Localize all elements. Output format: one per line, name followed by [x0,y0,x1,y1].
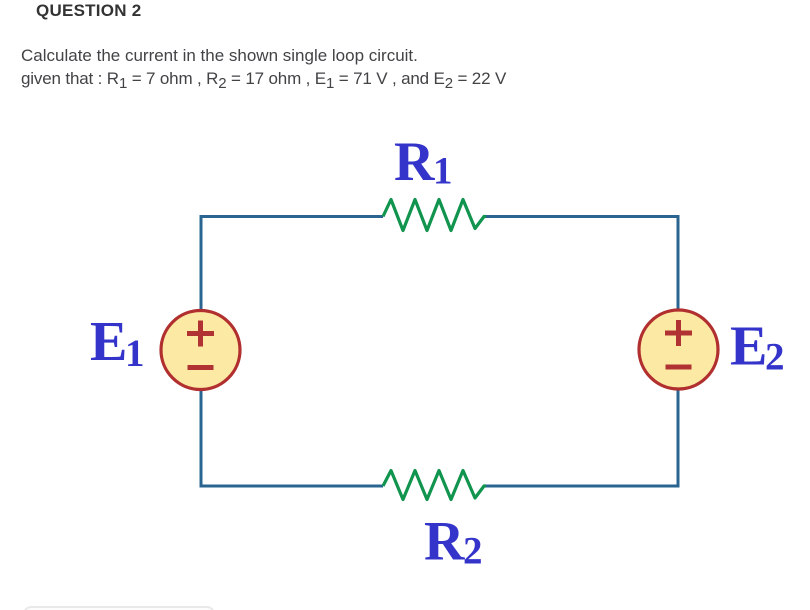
wire right vertical lower segment [677,389,680,488]
resistor R2 zigzag [383,471,486,500]
problem statement line 2 [21,69,506,89]
svg-text:1: 1 [125,332,145,375]
question header [36,1,141,21]
problem statement line 1 [21,46,418,66]
wire right vertical upper segment [677,215,680,310]
answer box (cut off at bottom) [23,606,215,610]
svg-text:R: R [394,131,435,193]
wire left vertical lower segment [200,389,203,488]
wire left vertical upper segment [200,215,203,311]
wire bottom-right horizontal segment [486,485,680,488]
E2 minus sign [666,365,692,370]
svg-text:2: 2 [463,530,483,573]
svg-text:E: E [90,311,127,373]
wire top-left horizontal segment [201,215,383,218]
voltage source E1 circle [161,311,240,390]
E2 plus sign [665,320,692,346]
wire bottom-left horizontal segment [200,485,384,488]
wire top-right horizontal segment [486,215,680,218]
E1 minus sign [188,365,214,370]
resistor R1 zigzag [383,200,486,231]
svg-text:R: R [424,511,465,573]
voltage source E2 circle [639,310,718,389]
E1 plus sign [187,321,214,347]
svg-text:E: E [730,316,767,378]
svg-text:2: 2 [765,336,785,379]
svg-text:1: 1 [433,150,453,193]
